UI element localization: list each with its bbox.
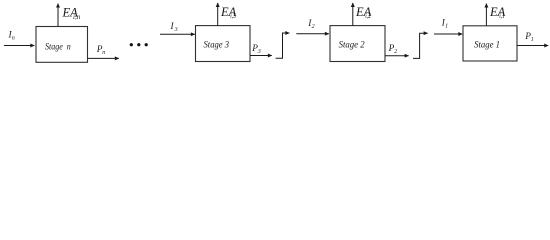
svg-text:Stage n: Stage n [45,42,71,52]
arrow EA stage 3 [217,3,219,26]
svg-text:i,n: i,n [73,13,81,21]
arrow I_2 input [296,33,329,35]
svg-text:i,2: i,2 [365,12,371,20]
svg-text:2: 2 [394,49,397,55]
arrow P_2 output [385,55,409,57]
box Stage n [36,27,88,63]
svg-text:3: 3 [174,27,178,33]
elbow connector stage3 to stage2 [276,33,290,58]
box Stage 3 [196,26,251,62]
ellipsis dots [130,43,133,46]
arrow P_1 output [517,45,548,47]
svg-text:1: 1 [445,23,448,29]
svg-text:i,3: i,3 [230,12,236,20]
svg-text:1: 1 [531,37,534,43]
box Stage 1 [463,26,517,61]
elbow connector stage2 to stage1 [413,33,428,58]
arrow P_n output [88,57,119,59]
svg-text:Stage 3: Stage 3 [204,41,230,51]
arrow EA stage n [57,4,59,27]
svg-text:n: n [12,35,15,41]
svg-text:i,1: i,1 [499,12,505,20]
svg-text:Stage 2: Stage 2 [339,41,365,51]
arrow P_3 output [250,55,272,57]
svg-text:n: n [102,50,105,56]
box Stage 2 [330,26,385,62]
svg-text:Stage 1: Stage 1 [474,41,500,51]
arrow I_3 input [160,33,195,35]
svg-text:2: 2 [312,24,315,30]
arrow EA stage 1 [485,4,487,26]
arrow EA stage 2 [352,3,354,26]
svg-text:3: 3 [257,49,261,55]
arrow I_1 input [434,33,462,35]
arrow I_n input [4,45,34,47]
